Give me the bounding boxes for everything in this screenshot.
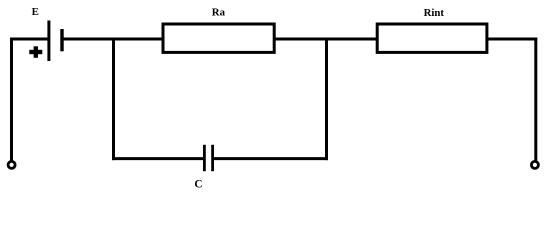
wire: right vertical down to right terminal <box>534 38 537 161</box>
wire: right drop of capacitor branch <box>325 39 328 160</box>
resistor Rint (box) <box>377 24 487 52</box>
wire: battery negative plate to resistor Ra <box>63 38 164 41</box>
battery E: short negative plate <box>60 29 63 51</box>
svg-text:Ra: Ra <box>212 7 226 19</box>
svg-text:E: E <box>32 6 39 18</box>
terminal: right open circle <box>531 161 538 168</box>
wire: Rint to top-right corner <box>487 38 537 41</box>
wire: Ra to Rint <box>274 38 378 41</box>
capacitor C: left plate <box>203 145 206 171</box>
terminal: left open circle <box>8 161 15 168</box>
wire: left vertical from top rail down to left terminal <box>10 38 13 161</box>
wire: bottom branch, capacitor to right side <box>213 157 328 160</box>
capacitor C: right plate <box>211 145 214 171</box>
svg-text:Rint: Rint <box>424 7 445 19</box>
+ polarity mark of battery <box>29 46 42 58</box>
svg-text:C: C <box>194 178 202 190</box>
battery E: long positive plate <box>47 21 50 62</box>
resistor Ra (box) <box>163 24 274 52</box>
wire: top-left horizontal from left corner to battery positive plate <box>10 38 49 41</box>
wire: left drop of capacitor branch <box>112 39 115 160</box>
wire: bottom branch, left side to capacitor <box>112 157 204 160</box>
